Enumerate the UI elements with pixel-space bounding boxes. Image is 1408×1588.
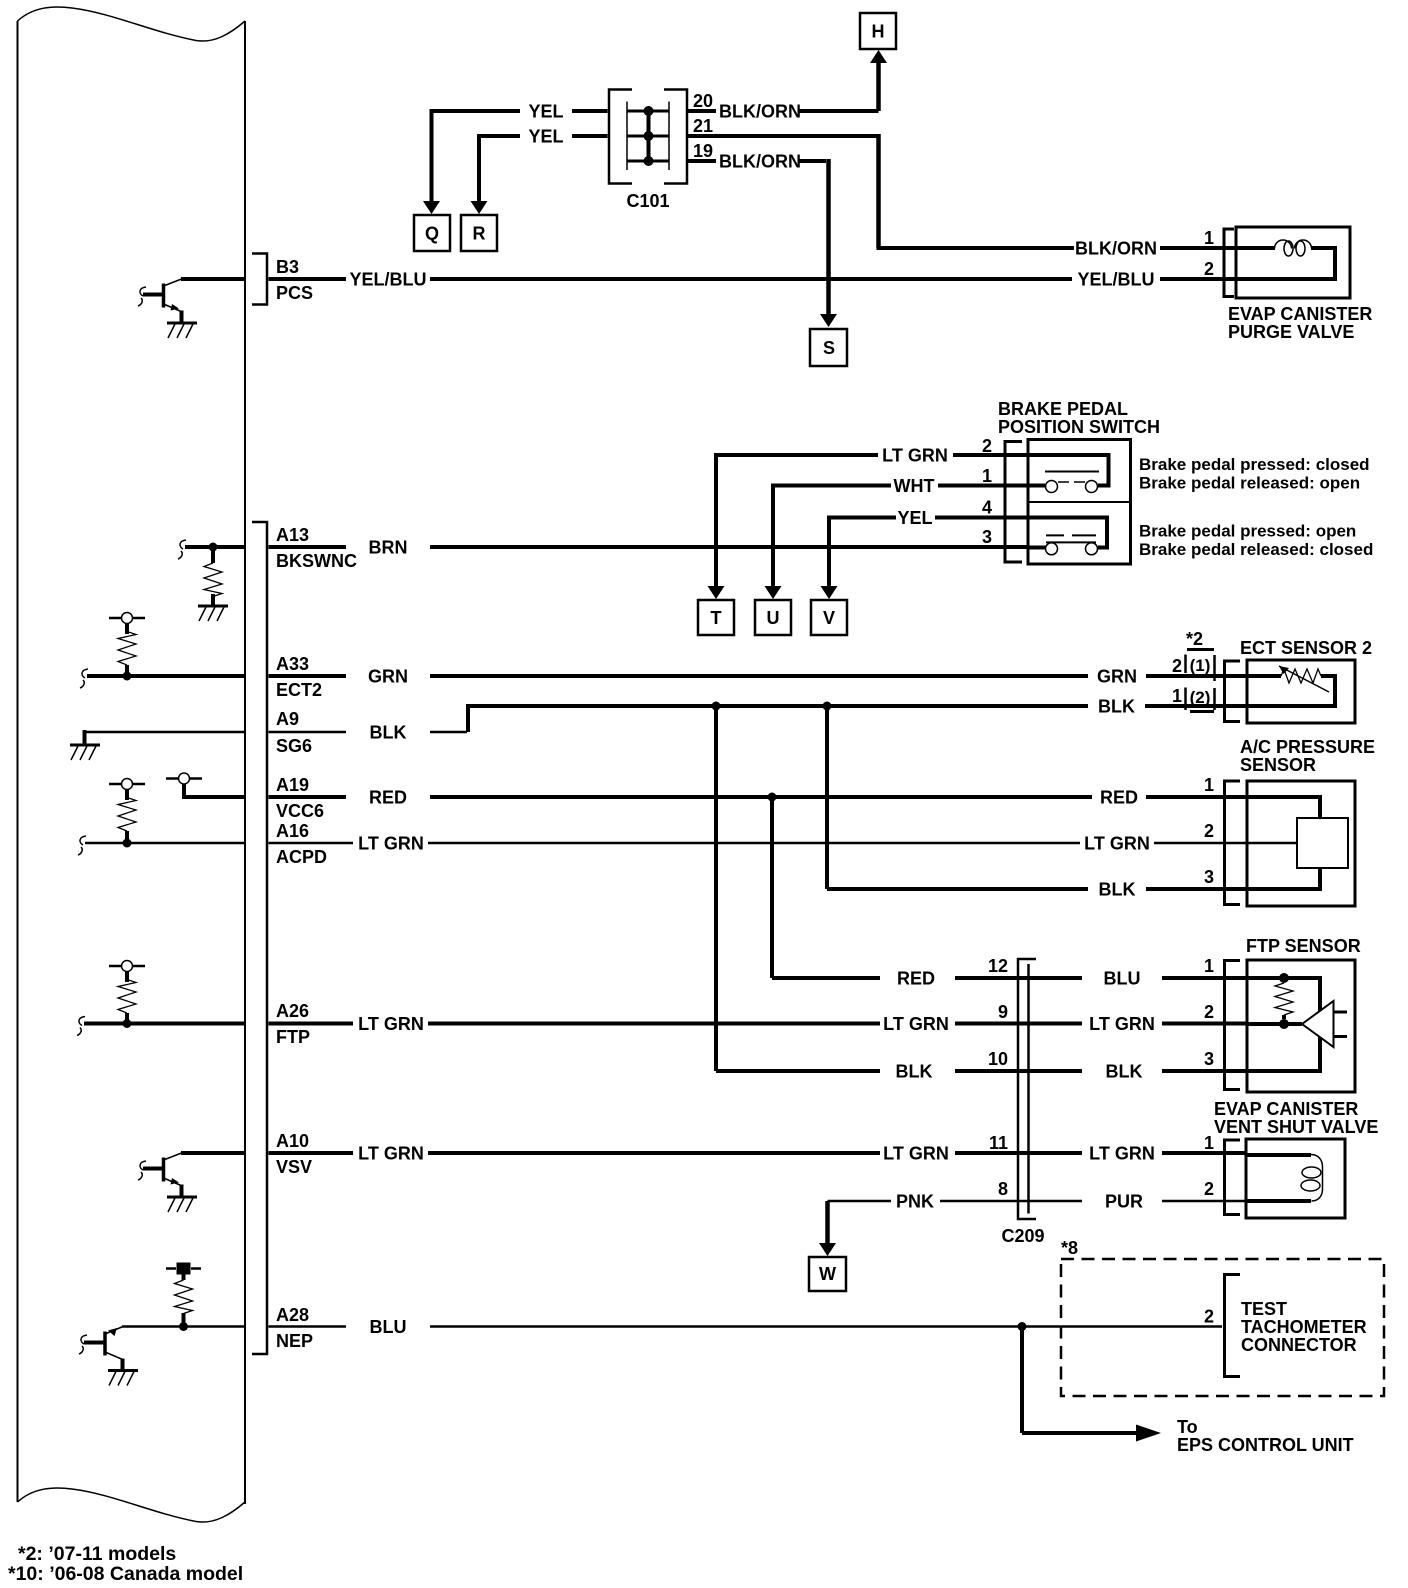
svg-text:PCS: PCS xyxy=(276,283,313,303)
wire YEL/BLU (B3 PCS row) xyxy=(269,270,1237,290)
svg-text:V: V xyxy=(823,608,835,628)
connector C101 xyxy=(609,90,687,212)
brake pedal position switch body xyxy=(1028,440,1131,565)
ECT sensor 2 footnote *2 xyxy=(1186,629,1214,650)
svg-text:H: H xyxy=(872,22,885,42)
wire BLK/ORN (pin 19 to S) xyxy=(688,152,837,328)
svg-text:3: 3 xyxy=(1204,867,1214,887)
FTP sensor pin numbers xyxy=(1204,956,1214,1069)
svg-text:U: U xyxy=(767,608,780,628)
svg-text:*2: *2 xyxy=(1186,629,1203,649)
svg-text:BLK/ORN: BLK/ORN xyxy=(719,152,801,172)
EVAP canister purge valve xyxy=(1228,227,1372,342)
wire BRN (A13 to brake switch pin 3) xyxy=(269,538,1029,558)
pull-up resistor to internal supply (FTP input) xyxy=(77,961,245,1036)
wire BLK branch to A/C pressure sensor pin 3 xyxy=(827,706,1247,900)
svg-text:LT GRN: LT GRN xyxy=(1089,1014,1155,1034)
connector box Q xyxy=(414,215,450,251)
svg-text:8: 8 xyxy=(998,1179,1008,1199)
svg-text:RED: RED xyxy=(369,788,407,808)
coil L2 xyxy=(1311,1155,1323,1202)
svg-text:LT GRN: LT GRN xyxy=(358,1014,424,1034)
ECT sensor 2 connector bracket xyxy=(1225,661,1241,722)
svg-text:LT GRN: LT GRN xyxy=(358,834,424,854)
svg-text:21: 21 xyxy=(693,116,713,136)
svg-text:FTP SENSOR: FTP SENSOR xyxy=(1246,936,1361,956)
svg-text:SG6: SG6 xyxy=(276,736,312,756)
svg-text:3: 3 xyxy=(982,527,992,547)
svg-text:RED: RED xyxy=(897,969,935,989)
pin label A9/SG6 xyxy=(276,709,312,756)
connector box S xyxy=(810,329,847,366)
coil L1 xyxy=(1275,240,1312,249)
wire PCS collector to edge xyxy=(181,277,245,281)
wire GRN (A33 to ECT sensor 2) xyxy=(269,667,1248,687)
transistor PCS driver xyxy=(138,279,182,323)
pin label A10/VSV xyxy=(276,1131,312,1177)
ground (PCS emitter) xyxy=(167,323,197,338)
svg-text:To: To xyxy=(1177,1417,1198,1437)
svg-text:BLK: BLK xyxy=(1106,1062,1143,1082)
pin label B3/PCS xyxy=(276,257,313,303)
FTP sensor xyxy=(1247,960,1355,1092)
amplifier (FTP internal) xyxy=(1302,1001,1334,1047)
pin label A26/FTP xyxy=(276,1001,310,1047)
transistor VSV driver xyxy=(138,1153,182,1197)
thermistor RT1 xyxy=(1281,669,1321,683)
node BLU/EPS junction xyxy=(1018,1322,1027,1331)
wire RED (A19 to A/C pressure sensor) xyxy=(269,788,1248,808)
svg-text:PUR: PUR xyxy=(1105,1192,1143,1212)
ECT pin number 2 with (1) xyxy=(1172,655,1215,682)
EVAP canister purge valve connector bracket xyxy=(1224,229,1234,297)
svg-text:A19: A19 xyxy=(276,775,309,795)
svg-text:*10: ’06-08 Canada model: *10: ’06-08 Canada model xyxy=(8,1563,243,1585)
wire BLK (A9 to ECT sensor / sensor grounds) xyxy=(269,697,1248,743)
svg-text:19: 19 xyxy=(693,141,713,161)
svg-text:BLU: BLU xyxy=(1104,969,1141,989)
svg-text:A9: A9 xyxy=(276,709,299,729)
transistor NEP driver xyxy=(79,1327,123,1371)
svg-text:2: 2 xyxy=(1204,821,1214,841)
test tachometer connector labels xyxy=(1241,1299,1367,1355)
wire BLK/ORN (pin 20 to H) xyxy=(688,50,887,122)
svg-text:BLK: BLK xyxy=(370,723,407,743)
wire YEL (brake pin 4 to V) xyxy=(821,508,1029,599)
node BLK/FTP branch junction xyxy=(712,702,721,711)
wire WHT (brake pin 1 to U) xyxy=(765,476,1029,599)
ECM/PCM torn-page block xyxy=(18,7,246,1522)
svg-text:1: 1 xyxy=(1204,956,1214,976)
ground (VSV emitter) xyxy=(167,1197,197,1212)
svg-text:BKSWNC: BKSWNC xyxy=(276,551,357,571)
svg-text:YEL/BLU: YEL/BLU xyxy=(349,270,426,290)
svg-text:ECT2: ECT2 xyxy=(276,680,322,700)
svg-text:Q: Q xyxy=(425,224,439,244)
svg-text:LT GRN: LT GRN xyxy=(358,1144,424,1164)
pull-up resistor to internal supply (ECT2 input) xyxy=(80,613,245,689)
svg-text:EVAP CANISTER: EVAP CANISTER xyxy=(1228,304,1372,324)
svg-text:20: 20 xyxy=(693,91,713,111)
brake switch lower contact set xyxy=(1028,518,1107,555)
test tachometer connector dashed enclosure xyxy=(1061,1259,1384,1396)
ECT sensor 2 xyxy=(1240,638,1372,723)
brake switch connector bracket xyxy=(1005,442,1022,563)
svg-text:TACHOMETER: TACHOMETER xyxy=(1241,1317,1367,1337)
svg-text:BRAKE PEDAL: BRAKE PEDAL xyxy=(998,399,1128,419)
EPS control unit note xyxy=(1177,1417,1354,1455)
svg-text:RED: RED xyxy=(1100,788,1138,808)
svg-text:YEL: YEL xyxy=(528,127,563,147)
EVAP canister vent shut valve labels xyxy=(1214,1099,1378,1137)
svg-text:LT GRN: LT GRN xyxy=(1084,834,1150,854)
test tachometer connector bracket xyxy=(1225,1275,1241,1377)
resistor (FTP internal) xyxy=(1275,983,1293,1015)
svg-text:PNK: PNK xyxy=(896,1192,934,1212)
A/C pressure sensor pin numbers xyxy=(1204,775,1214,887)
svg-text:BLK: BLK xyxy=(896,1062,933,1082)
svg-text:ACPD: ACPD xyxy=(276,847,327,867)
ground (NEP emitter) xyxy=(108,1371,138,1386)
svg-text:PURGE VALVE: PURGE VALVE xyxy=(1228,322,1354,342)
svg-text:YEL: YEL xyxy=(528,102,563,122)
svg-text:LT GRN: LT GRN xyxy=(882,446,948,466)
svg-text:C209: C209 xyxy=(1001,1226,1044,1246)
svg-text:LT GRN: LT GRN xyxy=(883,1014,949,1034)
svg-text:(1): (1) xyxy=(1190,656,1211,675)
wire BLK branch to C209 pin 10 / FTP sensor pin 3 xyxy=(716,706,1247,1082)
node RED branch junction xyxy=(768,793,777,802)
EVAP canister vent shut valve xyxy=(1246,1139,1345,1218)
pin label A16/ACPD xyxy=(276,821,327,867)
svg-text:CONNECTOR: CONNECTOR xyxy=(1241,1335,1357,1355)
svg-text:1: 1 xyxy=(1204,1133,1214,1153)
brake pedal position switch label xyxy=(998,399,1160,437)
connector box W xyxy=(809,1257,846,1291)
svg-text:2: 2 xyxy=(1204,1179,1214,1199)
svg-text:Brake pedal released: open: Brake pedal released: open xyxy=(1139,474,1360,493)
svg-text:T: T xyxy=(711,608,722,628)
pin label A28/NEP xyxy=(276,1305,313,1351)
pin label A19/VCC6 xyxy=(276,775,324,821)
svg-text:BLK: BLK xyxy=(1098,697,1135,717)
A/C pressure sensor connector bracket xyxy=(1225,781,1241,905)
svg-text:POSITION SWITCH: POSITION SWITCH xyxy=(998,417,1160,437)
svg-text:*2: ’07-11 models: *2: ’07-11 models xyxy=(18,1543,176,1565)
svg-text:BLK/ORN: BLK/ORN xyxy=(719,102,801,122)
wire LT GRN (brake pin 2 to T) xyxy=(708,446,1029,600)
svg-text:12: 12 xyxy=(988,956,1008,976)
svg-text:R: R xyxy=(473,224,486,244)
connector box U xyxy=(755,600,791,635)
svg-text:TEST: TEST xyxy=(1241,1299,1287,1319)
svg-text:LT GRN: LT GRN xyxy=(883,1144,949,1164)
FTP sensor connector bracket xyxy=(1225,961,1241,1090)
svg-text:2: 2 xyxy=(1204,1307,1214,1327)
svg-text:WHT: WHT xyxy=(894,476,935,496)
wire BLU (A28 to test tachometer connector) xyxy=(122,1317,1222,1337)
svg-text:9: 9 xyxy=(998,1002,1008,1022)
pin label A33/ECT2 xyxy=(276,654,322,700)
svg-text:1: 1 xyxy=(1204,228,1214,248)
wire YEL (pin 21 to R) xyxy=(471,127,608,215)
connector bracket A (A13..A28) xyxy=(252,522,267,1354)
ECT pin number 1 with (2) xyxy=(1172,686,1215,712)
svg-text:EVAP CANISTER: EVAP CANISTER xyxy=(1214,1099,1358,1119)
svg-text:GRN: GRN xyxy=(368,667,408,687)
svg-text:EPS CONTROL UNIT: EPS CONTROL UNIT xyxy=(1177,1435,1354,1455)
svg-text:2: 2 xyxy=(1204,1002,1214,1022)
pull-up resistor with supply block (NEP) xyxy=(166,1263,201,1332)
connector bracket B3 xyxy=(252,254,267,305)
brake switch state notes xyxy=(1139,455,1373,559)
svg-text:1: 1 xyxy=(1204,775,1214,795)
svg-text:ECT SENSOR 2: ECT SENSOR 2 xyxy=(1240,638,1372,658)
svg-text:3: 3 xyxy=(1204,1049,1214,1069)
svg-text:A26: A26 xyxy=(276,1001,309,1021)
svg-text:Brake pedal pressed: closed: Brake pedal pressed: closed xyxy=(1139,455,1370,474)
resistor + ground under A13 junction xyxy=(178,540,245,621)
A/C pressure sensor xyxy=(1247,781,1355,906)
svg-text:C101: C101 xyxy=(626,191,669,211)
svg-text:VENT SHUT VALVE: VENT SHUT VALVE xyxy=(1214,1117,1378,1137)
svg-text:LT GRN: LT GRN xyxy=(1089,1144,1155,1164)
A/C pressure sensor labels xyxy=(1240,737,1375,775)
svg-text:NEP: NEP xyxy=(276,1331,313,1351)
wire YEL (pin 20 to Q) xyxy=(423,102,608,215)
svg-text:2: 2 xyxy=(1172,656,1182,676)
svg-text:Brake pedal released: closed: Brake pedal released: closed xyxy=(1139,540,1373,559)
connector box R xyxy=(461,215,497,251)
vent shut valve pin numbers xyxy=(1204,1133,1214,1199)
svg-text:A10: A10 xyxy=(276,1131,309,1151)
svg-text:A33: A33 xyxy=(276,654,309,674)
svg-text:VSV: VSV xyxy=(276,1157,312,1177)
node BLK/AC branch junction xyxy=(823,702,832,711)
pull-up resistor to internal supply (ACPD input) xyxy=(78,779,245,856)
svg-text:4: 4 xyxy=(982,498,992,518)
svg-text:BLU: BLU xyxy=(370,1317,407,1337)
svg-text:1: 1 xyxy=(982,466,992,486)
svg-text:VCC6: VCC6 xyxy=(276,801,324,821)
internal supply VCC6 xyxy=(166,773,245,799)
svg-text:A13: A13 xyxy=(276,525,309,545)
svg-text:BRN: BRN xyxy=(369,538,408,558)
svg-text:YEL: YEL xyxy=(897,508,932,528)
brake switch upper contact set xyxy=(1028,455,1109,493)
connector C209 xyxy=(1001,959,1044,1246)
svg-text:B3: B3 xyxy=(276,257,299,277)
pin label A13/BKSWNC xyxy=(276,525,357,571)
svg-text:Brake pedal pressed: open: Brake pedal pressed: open xyxy=(1139,522,1356,541)
svg-text:W: W xyxy=(819,1264,836,1284)
wire BLU branch to EPS control unit xyxy=(1022,1327,1161,1442)
svg-text:2: 2 xyxy=(1204,259,1214,279)
wire PNK/PUR (C209 pin 8 to vent shut valve pin 2 and W) xyxy=(819,1192,1246,1257)
connector box H xyxy=(860,13,896,49)
svg-text:FTP: FTP xyxy=(276,1027,310,1047)
wire LT GRN (A16 to A/C pressure sensor pin 2) xyxy=(269,834,1248,854)
svg-text:GRN: GRN xyxy=(1097,667,1137,687)
svg-text:YEL/BLU: YEL/BLU xyxy=(1077,270,1154,290)
ground SG6 (sensor ground) xyxy=(70,730,245,760)
svg-text:A28: A28 xyxy=(276,1305,309,1325)
svg-text:11: 11 xyxy=(989,1133,1008,1153)
svg-text:*8: *8 xyxy=(1061,1238,1078,1258)
svg-text:A/C PRESSURE: A/C PRESSURE xyxy=(1240,737,1375,757)
connector box T xyxy=(698,600,734,635)
wire pin 21 trunk to purge valve pin 1 xyxy=(688,134,1236,259)
svg-text:1: 1 xyxy=(1172,686,1182,706)
connector box V xyxy=(811,600,847,635)
wire RED branch to C209 pin 12 xyxy=(772,797,1247,989)
svg-text:BLK: BLK xyxy=(1099,880,1136,900)
svg-text:S: S xyxy=(823,338,835,358)
svg-text:SENSOR: SENSOR xyxy=(1240,755,1316,775)
vent shut valve connector bracket xyxy=(1225,1140,1241,1215)
svg-text:A16: A16 xyxy=(276,821,309,841)
wire LT GRN (A10 to C209 pin 11 / vent shut valve pin 1) xyxy=(181,1144,1246,1164)
svg-text:10: 10 xyxy=(988,1049,1008,1069)
wire LT GRN (A26 to C209 pin 9 / FTP sensor pin 2) xyxy=(269,1014,1248,1034)
svg-text:BLK/ORN: BLK/ORN xyxy=(1075,239,1157,259)
